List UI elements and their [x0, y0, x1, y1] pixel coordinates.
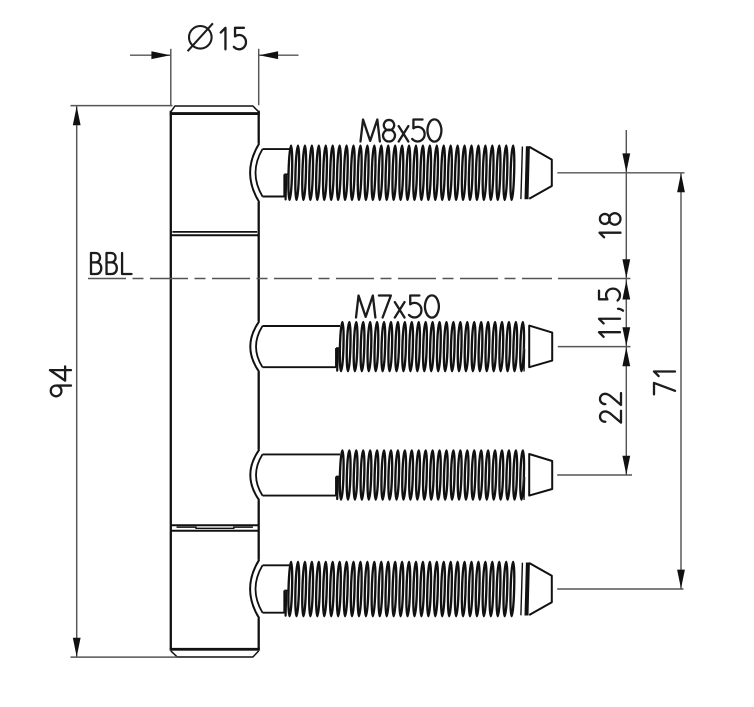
dimension 94 value text: [50, 366, 71, 396]
hinge knuckle joint lower with bearing ring: [171, 525, 259, 531]
hinge body top chamfer: [170, 106, 260, 114]
hinge body bottom chamfer: [170, 649, 260, 657]
dimension 22 value text: [600, 393, 621, 423]
label M8x50: [361, 119, 442, 141]
screw 1 threaded pin M8x50: [250, 144, 552, 203]
screw 3 threaded pin M7x50: [250, 450, 552, 501]
hinge knuckle joint upper: [171, 232, 259, 235]
dimension 71 value text: [654, 371, 675, 394]
dimension 94 lines: [71, 106, 178, 658]
extension lines from screw tips: [557, 173, 684, 589]
dimension 71 line: [677, 173, 685, 589]
hinge body outline: [171, 111, 259, 650]
dimension Ø15 diameter symbol: [188, 23, 213, 51]
BBL centerline (dash-dot): [88, 278, 552, 280]
dimension Ø15 extension and dimension lines: [130, 49, 299, 105]
dimension 11,5 value text: [599, 289, 623, 337]
dimension 18 value text: [600, 213, 621, 237]
BBL label: [91, 253, 132, 274]
screw 2 threaded pin M7x50: [250, 321, 552, 372]
screw 4 threaded pin M8x50: [250, 560, 552, 619]
dimension lines 18 / 11,5 / 22: [622, 130, 630, 475]
dimension Ø15 value text: [221, 28, 246, 50]
label M7x50: [356, 295, 439, 317]
